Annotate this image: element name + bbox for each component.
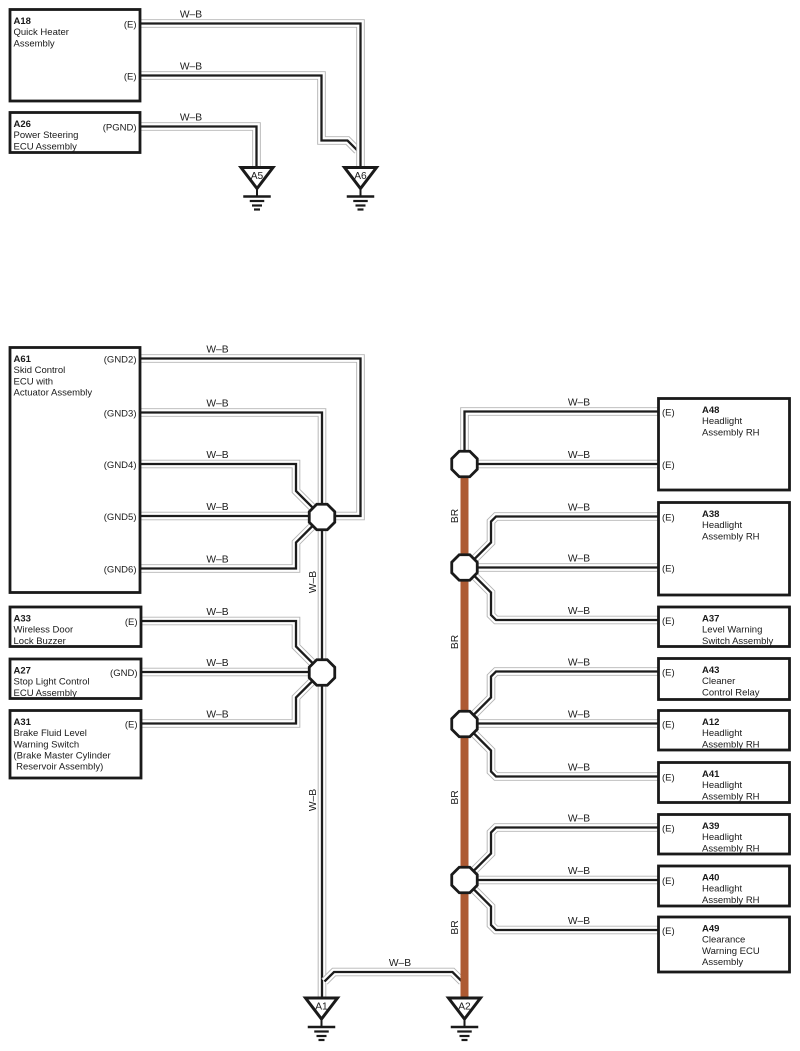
svg-text:(E): (E): [662, 719, 675, 730]
svg-text:Assembly RH: Assembly RH: [702, 791, 760, 802]
wire W-B from A26 pin (PGND) to ground A5: [140, 127, 257, 171]
svg-text:Switch Assembly: Switch Assembly: [702, 636, 774, 647]
svg-text:A27: A27: [14, 665, 31, 676]
junction connector J2 (splice): [309, 660, 335, 686]
svg-text:(E): (E): [124, 19, 137, 30]
svg-text:Headlight: Headlight: [702, 884, 742, 895]
svg-text:(PGND): (PGND): [103, 122, 137, 133]
svg-text:(Brake Master Cylinder: (Brake Master Cylinder: [14, 751, 111, 762]
svg-text:A31: A31: [14, 717, 32, 728]
wire W-B from A49 pin (E) to junction J6 lower-right: [473, 889, 659, 931]
svg-text:(GND4): (GND4): [104, 460, 137, 471]
svg-text:A2: A2: [458, 1002, 471, 1013]
connector box A33: [10, 607, 141, 647]
connector box A12: [659, 711, 790, 751]
svg-text:(GND5): (GND5): [104, 512, 137, 523]
connector box A18: [10, 10, 140, 102]
svg-text:A43: A43: [702, 665, 719, 676]
svg-text:ECU Assembly: ECU Assembly: [14, 141, 78, 152]
svg-text:(GND2): (GND2): [104, 354, 137, 365]
svg-text:W–B: W–B: [568, 916, 590, 927]
junction connector J5 (splice): [452, 711, 478, 737]
svg-text:W–B: W–B: [568, 814, 590, 825]
svg-text:ECU Assembly: ECU Assembly: [14, 688, 78, 699]
connector box A41: [659, 763, 790, 803]
svg-text:Assembly: Assembly: [702, 957, 743, 968]
connector box A26: [10, 113, 140, 153]
wire W-B from A27 pin (GND) to junction J2 left: [141, 668, 315, 677]
svg-text:Clearance: Clearance: [702, 935, 745, 946]
svg-text:(E): (E): [662, 667, 675, 678]
svg-text:W–B: W–B: [180, 62, 202, 73]
svg-text:W–B: W–B: [568, 658, 590, 669]
junction connector J4 (splice): [452, 555, 478, 581]
wire W-B junction J2 to ground A1: [318, 680, 327, 997]
svg-text:Assembly RH: Assembly RH: [702, 427, 760, 438]
svg-text:Headlight: Headlight: [702, 416, 742, 427]
connector box A48: [659, 399, 790, 491]
connector box A38: [659, 503, 790, 596]
svg-text:(E): (E): [662, 772, 675, 783]
svg-text:A5: A5: [251, 171, 264, 182]
svg-text:Quick Heater: Quick Heater: [14, 27, 69, 38]
svg-text:Cleaner: Cleaner: [702, 676, 735, 687]
svg-text:ECU with: ECU with: [14, 376, 54, 387]
svg-text:A12: A12: [702, 717, 719, 728]
svg-text:W–B: W–B: [180, 10, 202, 21]
svg-text:A49: A49: [702, 923, 719, 934]
wire W-B from A61 pin (GND6) to junction J1 lower-left: [140, 525, 314, 569]
junction connector J3 (splice): [452, 451, 478, 477]
svg-text:A39: A39: [702, 821, 719, 832]
svg-text:Actuator Assembly: Actuator Assembly: [14, 388, 93, 399]
svg-text:A18: A18: [14, 16, 31, 27]
svg-text:W–B: W–B: [180, 113, 202, 124]
wire W-B from A61 pin (GND3) to junction J1 top: [140, 413, 322, 511]
svg-text:A37: A37: [702, 613, 719, 624]
svg-text:(E): (E): [662, 407, 675, 418]
svg-text:W–B: W–B: [206, 399, 228, 410]
svg-text:(E): (E): [662, 876, 675, 887]
wire W-B from A39 pin (E) to junction J6 upper-right: [473, 828, 659, 872]
svg-text:W–B: W–B: [389, 958, 411, 969]
wire W-B from A48 pin (E) lower to junction J3 right: [470, 460, 659, 469]
wire W-B from A48 pin (E) upper to junction J3 top: [465, 412, 659, 456]
svg-text:Headlight: Headlight: [702, 520, 742, 531]
wire W-B from A31 pin (E) to junction J2 lower-left: [141, 680, 314, 724]
svg-text:(GND6): (GND6): [104, 564, 137, 575]
junction connector J6 (splice): [452, 867, 478, 893]
svg-text:W–B: W–B: [206, 345, 228, 356]
wire W-B from A38 pin (E) upper to junction J4 upper-right: [473, 517, 659, 561]
junction connector J1 (splice): [309, 504, 335, 530]
connector box A39: [659, 815, 790, 855]
svg-text:Headlight: Headlight: [702, 780, 742, 791]
svg-text:(E): (E): [662, 616, 675, 627]
svg-text:W–B: W–B: [206, 555, 228, 566]
wire W-B from A33 pin (E) to junction J2 upper-left: [141, 621, 314, 665]
svg-text:Lock Buzzer: Lock Buzzer: [14, 636, 66, 647]
wire W-B from A40 pin (E) to junction J6 right: [470, 876, 659, 885]
svg-text:A33: A33: [14, 613, 31, 624]
svg-text:(GND3): (GND3): [104, 408, 137, 419]
wire W-B junction J1 to junction J2: [318, 525, 327, 670]
connector box A49: [659, 917, 790, 972]
svg-text:W–B: W–B: [568, 554, 590, 565]
svg-text:W–B: W–B: [568, 398, 590, 409]
svg-text:Reservoir Assembly): Reservoir Assembly): [14, 762, 104, 773]
wire W-B from A18 pin (E) upper to ground A6: [140, 24, 361, 171]
wire W-B from A41 pin (E) to junction J5 lower-right: [473, 733, 659, 777]
wire W-B from A12 pin (E) to junction J5 right: [470, 719, 659, 728]
svg-text:A40: A40: [702, 872, 719, 883]
wire W-B from A61 pin (GND2) to junction J1 right: [140, 359, 361, 517]
svg-text:W–B: W–B: [308, 789, 319, 811]
svg-text:A48: A48: [702, 405, 719, 416]
svg-text:BR: BR: [450, 635, 461, 649]
svg-text:A26: A26: [14, 119, 31, 130]
wire W-B from A43 pin (E) to junction J5 upper-right: [473, 672, 659, 716]
svg-text:Brake Fluid Level: Brake Fluid Level: [14, 728, 87, 739]
svg-text:(E): (E): [124, 71, 137, 82]
svg-text:(GND): (GND): [110, 668, 137, 679]
svg-text:Assembly: Assembly: [14, 38, 55, 49]
svg-text:(E): (E): [662, 926, 675, 937]
svg-text:W–B: W–B: [568, 710, 590, 721]
svg-text:(E): (E): [662, 460, 675, 471]
svg-text:A1: A1: [315, 1002, 328, 1013]
svg-text:W–B: W–B: [308, 571, 319, 593]
wire W-B from A18 pin (E) lower to ground A6 (merges): [140, 76, 357, 151]
connector box A43: [659, 659, 790, 700]
ground A5: [241, 168, 273, 210]
svg-text:Stop Light Control: Stop Light Control: [14, 677, 90, 688]
svg-text:Headlight: Headlight: [702, 832, 742, 843]
connector box A40: [659, 866, 790, 906]
svg-text:Assembly RH: Assembly RH: [702, 739, 760, 750]
svg-text:Control Relay: Control Relay: [702, 687, 760, 698]
connector box A37: [659, 607, 790, 647]
connector box A27: [10, 659, 141, 699]
svg-text:Warning ECU: Warning ECU: [702, 946, 760, 957]
ground A2: [449, 998, 481, 1040]
svg-text:(E): (E): [125, 617, 138, 628]
svg-text:Level Warning: Level Warning: [702, 625, 762, 636]
svg-text:BR: BR: [450, 790, 461, 804]
svg-text:(E): (E): [125, 719, 138, 730]
wire BR trunk from junction J3 down through J4, J5, J6 to ground A2: [461, 470, 469, 997]
svg-text:W–B: W–B: [568, 450, 590, 461]
connector box A31: [10, 711, 141, 779]
svg-text:A6: A6: [354, 171, 367, 182]
wire W-B from A61 pin (GND5) to junction J1 left: [140, 512, 315, 521]
svg-text:W–B: W–B: [206, 658, 228, 669]
svg-text:A41: A41: [702, 769, 720, 780]
svg-text:(E): (E): [662, 823, 675, 834]
svg-text:Skid Control: Skid Control: [14, 365, 66, 376]
svg-text:W–B: W–B: [206, 450, 228, 461]
svg-text:Warning Switch: Warning Switch: [14, 739, 80, 750]
svg-text:Assembly RH: Assembly RH: [702, 895, 760, 906]
wire W-B from A61 pin (GND4) to junction J1 upper-left: [140, 464, 314, 509]
svg-text:Wireless Door: Wireless Door: [14, 625, 74, 636]
svg-text:W–B: W–B: [568, 866, 590, 877]
svg-text:W–B: W–B: [206, 502, 228, 513]
wire W-B branch from ground A1 wire to ground A2: [325, 972, 463, 982]
svg-text:W–B: W–B: [568, 606, 590, 617]
svg-text:A38: A38: [702, 509, 719, 520]
svg-text:W–B: W–B: [206, 710, 228, 721]
wire W-B from A38 pin (E) lower to junction J4 right: [470, 563, 659, 572]
svg-text:(E): (E): [662, 512, 675, 523]
connector box A61: [10, 348, 140, 593]
svg-text:Headlight: Headlight: [702, 728, 742, 739]
svg-text:W–B: W–B: [568, 763, 590, 774]
svg-text:Assembly RH: Assembly RH: [702, 531, 760, 542]
ground A1: [306, 998, 338, 1040]
svg-text:A61: A61: [14, 354, 32, 365]
svg-text:Power Steering: Power Steering: [14, 130, 79, 141]
ground A6: [345, 168, 377, 210]
svg-text:BR: BR: [450, 920, 461, 934]
svg-text:BR: BR: [450, 509, 461, 523]
svg-text:W–B: W–B: [568, 503, 590, 514]
svg-text:W–B: W–B: [206, 607, 228, 618]
svg-text:Assembly RH: Assembly RH: [702, 843, 760, 854]
wire W-B from A37 pin (E) to junction J4 lower-right: [473, 575, 659, 621]
svg-text:(E): (E): [662, 563, 675, 574]
